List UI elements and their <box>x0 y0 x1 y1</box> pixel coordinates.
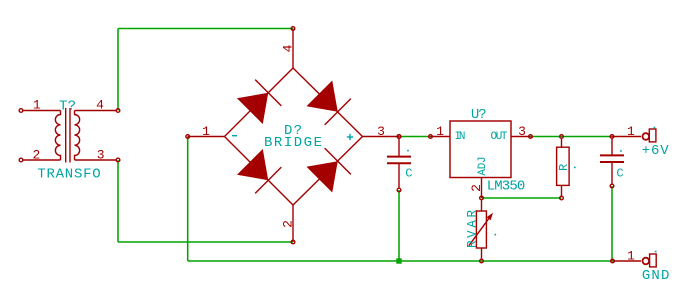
svg-text:2: 2 <box>469 184 484 192</box>
svg-text:2: 2 <box>32 148 40 163</box>
regulator pin name ADJ <box>477 156 489 175</box>
regulator pin 1 number <box>436 124 444 139</box>
svg-text:3: 3 <box>97 148 105 163</box>
potentiometer arrow head <box>487 213 494 221</box>
bridge rectifier diamond <box>225 68 363 205</box>
wire: bridge pin3 to regulator IN <box>399 136 431 138</box>
transformer pin 1 end circle <box>19 109 23 113</box>
capacitor C1 value dot <box>407 150 409 152</box>
capacitor C2 label C <box>616 166 623 180</box>
svg-text:1: 1 <box>436 124 444 139</box>
svg-text:1: 1 <box>33 98 41 113</box>
regulator value LM350 <box>487 179 526 195</box>
connector GND <box>613 254 657 267</box>
bridge pin 2 number <box>281 220 296 228</box>
wire: C2 bottom to ground rail <box>611 186 613 261</box>
capacitor C2 value dot <box>620 150 622 152</box>
transformer pin number 3 <box>97 148 105 163</box>
resistor R pin end circles <box>560 135 564 200</box>
potentiometer value dot <box>495 234 497 236</box>
svg-text:TRANSFO: TRANSFO <box>37 167 100 183</box>
resistor R value dot <box>574 167 576 169</box>
wire: top horizontal to bridge pin4 <box>118 28 293 30</box>
transformer pin 4 end circle <box>116 109 120 113</box>
diode top-right (anode top corner, cathode right) <box>306 80 350 124</box>
capacitor C (output) <box>600 139 624 184</box>
bridge pin name plus <box>347 134 353 140</box>
wire: regulator OUT to output rail <box>531 136 613 138</box>
diode top-left (anode left corner, cathode top) <box>237 80 281 124</box>
svg-text:1: 1 <box>627 249 635 264</box>
capacitor C2 pin end circles <box>610 135 614 188</box>
bridge pin 2 (bottom) <box>291 205 295 244</box>
bridge pin 4 number <box>281 44 296 52</box>
connector GND value dot <box>655 251 657 253</box>
regulator pin 3 OUT <box>511 135 532 139</box>
capacitor C1 label C <box>405 167 412 181</box>
svg-text:1: 1 <box>627 124 635 139</box>
diode bottom-right (anode bottom corner, cathode right) <box>306 148 350 192</box>
wire: transformer pin3 down <box>117 160 119 242</box>
connector GND label <box>642 268 670 284</box>
transformer pin 3 end circle <box>116 158 120 162</box>
svg-text:3: 3 <box>377 124 385 139</box>
capacitor C (filter, bridge output) <box>387 139 411 188</box>
transformer pin number 2 <box>32 148 40 163</box>
svg-text:U?: U? <box>471 107 487 123</box>
junction at C1/ground rail <box>396 258 401 263</box>
connector +6V label <box>642 143 669 159</box>
bridge pin name minus <box>232 135 237 137</box>
connector +6V <box>612 129 656 142</box>
regulator reference U? <box>471 107 487 123</box>
regulator pin name OUT <box>491 131 508 143</box>
potentiometer bottom pin circle <box>480 259 484 263</box>
svg-text:C: C <box>405 167 412 181</box>
transformer pin number 4 <box>96 98 104 113</box>
bridge reference D? <box>284 123 302 139</box>
regulator pin name IN <box>455 131 466 143</box>
svg-text:2: 2 <box>281 220 296 228</box>
wire: transformer pin4 up <box>117 29 119 111</box>
connector +6V value dot <box>654 127 656 129</box>
connector GND pin number 1 <box>627 249 635 264</box>
transformer T? body (TRANSFO) <box>23 108 116 163</box>
diode bottom-left (anode left corner, cathode bottom) <box>237 149 281 193</box>
bridge pin 1 number <box>202 124 210 139</box>
svg-text:T?: T? <box>59 98 76 114</box>
resistor R label <box>557 164 571 171</box>
svg-text:GND: GND <box>642 268 670 284</box>
bridge pin 3 number <box>377 124 385 139</box>
regulator pin 2 number <box>469 184 484 192</box>
wire: bridge pin1 down left vertical <box>187 137 189 262</box>
transformer pin 2 end circle <box>19 158 23 162</box>
svg-text:IN: IN <box>455 131 466 143</box>
svg-text:1: 1 <box>202 124 210 139</box>
svg-text:4: 4 <box>281 44 296 52</box>
svg-text:4: 4 <box>96 98 104 113</box>
regulator pin 3 number <box>518 124 526 139</box>
bridge pin 1 (left) <box>186 135 225 139</box>
regulator U? body (LM350) <box>450 121 511 178</box>
connector +6V pin number 1 <box>627 124 635 139</box>
bridge pin 3 (right) <box>363 135 401 139</box>
svg-text:R: R <box>557 164 571 171</box>
svg-text:+6V: +6V <box>642 143 669 159</box>
capacitor C1 pin end circles <box>397 135 401 192</box>
potentiometer RVAR body <box>469 201 489 259</box>
bridge value BRIDGE <box>264 135 322 151</box>
wire: bottom ground rail <box>188 260 613 262</box>
bridge pin 4 (top) <box>291 27 295 68</box>
transformer pin number 1 <box>33 98 41 113</box>
svg-text:OUT: OUT <box>491 131 508 143</box>
svg-text:LM350: LM350 <box>487 179 526 195</box>
svg-text:ADJ: ADJ <box>477 156 489 175</box>
transformer reference T? <box>59 98 76 114</box>
svg-text:3: 3 <box>518 124 526 139</box>
wire: horizontal to bridge pin2 <box>118 241 293 243</box>
regulator pin 2 ADJ <box>480 178 484 200</box>
potentiometer label RVAR <box>466 210 480 248</box>
svg-text:C: C <box>616 166 623 180</box>
wire: C1 bottom to ground rail <box>398 190 400 261</box>
transformer value TRANSFO <box>37 167 100 183</box>
regulator pin 1 IN <box>429 135 450 139</box>
resistor R <box>557 139 570 196</box>
wire: ADJ rail to R bottom <box>482 197 562 199</box>
connector GND pin end circle <box>611 259 615 263</box>
